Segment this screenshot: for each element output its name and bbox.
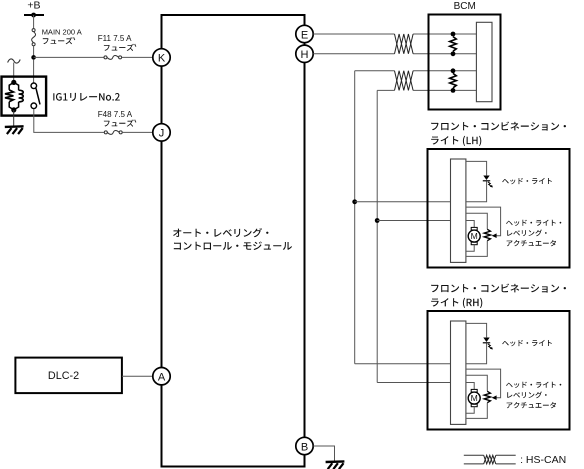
svg-text:J: J: [159, 128, 165, 140]
wire actuator motor feed: [466, 383, 474, 390]
twisted pair symbol (HS-CAN): [395, 34, 414, 54]
wire: [33, 15, 35, 29]
pin B: [296, 437, 313, 454]
fusible link MAIN 200 A: [32, 29, 35, 32]
wire CAN pair 2 upper (bus1 to BCM): [355, 70, 395, 72]
headlight LED LH: [483, 176, 489, 181]
crimp squiggle (wire continues): [8, 59, 21, 63]
svg-text:B: B: [301, 441, 308, 453]
wire bus1 to LH light: [355, 201, 451, 203]
junction: [451, 68, 456, 73]
BCM box: [429, 15, 501, 110]
wire motor return: [466, 245, 474, 252]
junction: [451, 32, 456, 37]
svg-text:: HS-CAN: : HS-CAN: [520, 454, 566, 466]
label front combination light (RH): [431, 284, 566, 293]
wire bus2 to LH light: [377, 220, 450, 222]
actuator motor M LH: [471, 227, 477, 230]
headlight LED RH: [483, 338, 489, 343]
relay coil terminal dots: [11, 80, 16, 85]
wire CAN pair 2 lower (bus2 to BCM): [377, 89, 394, 91]
light connector: [451, 321, 466, 424]
svg-text:A: A: [158, 372, 166, 384]
relay coil resistor branch: [9, 82, 14, 90]
pin H: [296, 45, 313, 62]
wire sensor return: [466, 241, 487, 257]
actuator position sensor (variable resistor) LH: [484, 229, 490, 240]
svg-text:M: M: [471, 231, 478, 241]
wire coil to ground: [13, 110, 15, 126]
pin E: [296, 25, 313, 42]
wire from junction to relay switch: [33, 60, 35, 84]
wire switch to J: [34, 109, 105, 132]
actuator motor M RH: [471, 389, 477, 392]
legend twisted pair = HS-CAN: [464, 454, 484, 456]
svg-text:M: M: [471, 393, 478, 403]
module box: auto leveling control module: [162, 15, 305, 467]
wire sensor return: [466, 403, 487, 419]
wire CAN-H pin E to BCM: [313, 33, 394, 35]
connector DLC-2 box: [15, 358, 122, 394]
wire headlight loop: [466, 161, 487, 175]
wire bus2 to RH light: [377, 382, 450, 384]
junction bus1 / LH: [352, 199, 357, 204]
label headlight: [502, 178, 552, 184]
termination resistor 1: [450, 37, 457, 52]
wire bus1 to RH light: [355, 363, 451, 365]
wire headlight loop: [466, 323, 487, 337]
svg-text:F48 7.5 A: F48 7.5 A: [98, 110, 133, 119]
wire pin B to ground: [313, 446, 334, 461]
ground: [5, 125, 24, 128]
BCM connector: [476, 22, 492, 101]
pin J: [153, 124, 170, 141]
junction: [31, 55, 36, 60]
light connector: [451, 159, 466, 262]
relay switch contacts: [31, 83, 37, 89]
wire: [122, 131, 153, 133]
svg-text:DLC-2: DLC-2: [48, 370, 79, 382]
junction bus2 / LH: [375, 218, 380, 223]
svg-text:F11 7.5 A: F11 7.5 A: [98, 34, 132, 43]
pin A: [153, 368, 170, 385]
wire CAN-L pin H to BCM: [313, 53, 394, 55]
svg-text:H: H: [301, 49, 309, 61]
wire actuator wiper: [466, 207, 501, 236]
wire: [34, 56, 104, 58]
wire actuator motor feed: [466, 221, 474, 228]
wire: [33, 46, 35, 58]
svg-text:K: K: [158, 53, 166, 65]
fuse F11 7.5 A: [104, 56, 107, 59]
actuator position sensor (variable resistor) RH: [484, 391, 490, 402]
label front combination light (LH): [431, 122, 566, 131]
termination resistor 2: [450, 73, 457, 87]
label headlight leveling actuator: [506, 382, 561, 388]
svg-text:+B: +B: [27, 0, 40, 12]
label headlight leveling actuator: [506, 220, 561, 226]
wire actuator sensor top: [466, 213, 487, 229]
wire CAN bus 1 vertical: [354, 71, 356, 364]
front combination light (RH) box: [428, 311, 570, 430]
wire actuator wiper: [466, 369, 501, 398]
svg-text:MAIN 200 A: MAIN 200 A: [42, 27, 82, 36]
junction: [451, 51, 456, 56]
wire CAN bus 2 vertical: [376, 90, 378, 382]
relay IG1 No.2 box: [2, 77, 47, 116]
wire DLC-2 to A: [122, 375, 153, 377]
svg-text:E: E: [301, 29, 308, 41]
junction: [451, 88, 456, 93]
twisted pair symbol (HS-CAN): [395, 71, 414, 91]
label auto leveling control module: [173, 228, 268, 237]
wire coil lead: [13, 63, 15, 82]
label headlight: [502, 340, 552, 346]
ground: [326, 460, 345, 463]
label IG1 relay No.2: [53, 93, 120, 101]
fuse F48 7.5 A: [104, 131, 107, 134]
front combination light (LH) box: [428, 149, 570, 268]
pin K: [153, 49, 170, 66]
relay coil inductor branch: [14, 82, 19, 90]
relay switch blade: [36, 88, 40, 104]
wire: [122, 56, 153, 58]
wire actuator sensor top: [466, 375, 487, 391]
wire motor return: [466, 407, 474, 414]
svg-text:BCM: BCM: [454, 1, 476, 12]
